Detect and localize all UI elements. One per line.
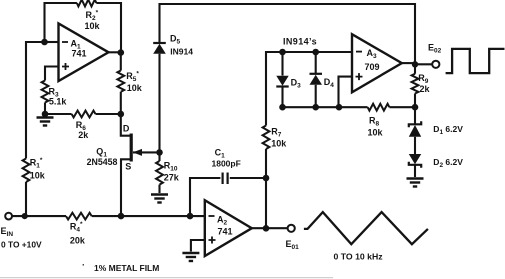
ground under R3 — [37, 117, 54, 126]
wire R3 to ground junction — [44, 103, 46, 115]
node R1 bottom junction — [22, 213, 28, 219]
node C1 R7 junction — [263, 175, 270, 182]
label S — [125, 162, 131, 172]
svg-text:0 TO +10V: 0 TO +10V — [1, 240, 42, 250]
diode D4 — [310, 74, 323, 85]
label E_IN — [1, 226, 14, 238]
wire R7 top to A3 line — [266, 52, 352, 126]
node D3 top junction — [279, 49, 286, 56]
wire A1 inverting input — [45, 41, 59, 43]
wire R4 to A2 — [92, 215, 205, 217]
svg-text:10k: 10k — [368, 128, 384, 138]
waveform triangle wave — [304, 212, 428, 244]
wire D3 top lead — [281, 52, 283, 76]
diode D5 — [153, 43, 166, 54]
svg-text:10k: 10k — [271, 139, 287, 149]
svg-text:IN914: IN914 — [170, 47, 193, 57]
op-amp A2 — [205, 200, 252, 256]
wire D3 bottom lead — [281, 87, 283, 108]
svg-text:2k: 2k — [420, 84, 431, 94]
node R9 D1 junction — [412, 104, 419, 111]
wire Q1 drain lead — [121, 114, 130, 136]
wire A3 noninverting lead — [339, 77, 353, 108]
note 1% metal film — [82, 260, 159, 273]
node source bottom junction — [118, 213, 125, 220]
resistor R5 — [117, 71, 124, 92]
wire R6 right — [96, 113, 121, 115]
label R5 10k — [126, 71, 143, 93]
svg-text:5.1k: 5.1k — [49, 97, 68, 107]
wire A2 output up column — [265, 178, 267, 228]
node R5 R6 drain junction — [118, 111, 125, 118]
label D2 6.2V — [433, 157, 463, 169]
label Q1 2N5458 — [87, 147, 118, 167]
svg-text:20k: 20k — [70, 236, 86, 246]
zener D2 — [409, 154, 421, 168]
wire E_IN to R4 — [12, 215, 66, 217]
label R7 10k — [271, 127, 287, 149]
wire R6 left — [45, 113, 72, 115]
wire A1 feedback loop top rail — [45, 3, 122, 53]
bottom scan line — [0, 277, 333, 279]
waveform square wave — [446, 49, 505, 73]
label R6 2k — [76, 120, 90, 140]
svg-text:709: 709 — [365, 62, 380, 72]
node A2 output junction — [263, 225, 270, 232]
label IN914s — [283, 37, 317, 47]
label 0 TO 10 kHz — [334, 252, 384, 262]
node D4 top junction — [312, 49, 319, 56]
terminal E_O1 — [288, 225, 295, 232]
label D1 6.2V — [433, 124, 463, 136]
svg-text:10k: 10k — [127, 83, 143, 93]
zener D1 — [409, 121, 421, 137]
wire R5 bottom lead — [120, 92, 122, 114]
wire Q1 source lead — [121, 159, 130, 216]
wire A1 output — [109, 51, 122, 53]
wire C1 left lead — [190, 178, 220, 216]
svg-text:·: · — [82, 260, 85, 270]
wire A2 noninverting to ground — [191, 240, 205, 252]
label E_O2 — [428, 43, 442, 55]
wire E_O2 lead — [415, 63, 432, 65]
wire A1 noninverting input — [45, 67, 59, 81]
label A2 741 — [217, 215, 233, 237]
wire D4 top lead — [315, 52, 317, 74]
wire top rail — [160, 4, 416, 65]
label R2 10k — [85, 10, 101, 31]
svg-text:D: D — [123, 124, 130, 134]
svg-text:2k: 2k — [78, 130, 89, 140]
svg-text:0 TO 10 kHz: 0 TO 10 kHz — [334, 252, 384, 262]
svg-text:10k: 10k — [30, 171, 46, 181]
resistor R1 — [23, 159, 30, 183]
diode D3 — [276, 76, 288, 87]
transistor Q1 channel bar — [130, 134, 133, 162]
node A1 inv junction — [41, 39, 48, 46]
label D3 — [291, 78, 302, 90]
capacitor C1 — [223, 173, 228, 185]
wire A3 output — [402, 62, 415, 64]
op-amp A3 — [352, 34, 402, 92]
svg-text:10k: 10k — [85, 21, 101, 31]
wire R9 bottom lead — [414, 94, 416, 108]
wire R8 left lead — [339, 106, 368, 108]
wire D5 anode to gate junction — [158, 54, 160, 153]
wire R8 right lead — [389, 106, 415, 108]
label R10 27k — [164, 161, 180, 183]
label R4 20k — [70, 221, 86, 245]
terminal E_IN — [5, 213, 12, 220]
label A1 741 — [71, 39, 87, 59]
op-amp A1 — [59, 24, 109, 82]
wire limiter bottom line — [283, 106, 340, 108]
svg-text:1800pF: 1800pF — [212, 159, 241, 169]
label R1 10k — [30, 157, 46, 180]
node gate R10 junction — [156, 149, 163, 156]
wire R9 top lead — [414, 64, 416, 74]
wire R10 to ground — [158, 185, 160, 193]
svg-text:IN914’s: IN914’s — [283, 37, 317, 47]
resistor R6 — [72, 111, 96, 118]
wire D1 top lead — [414, 107, 416, 124]
resistor R7 — [263, 126, 270, 150]
svg-text:741: 741 — [218, 227, 233, 237]
node D4 bottom junction — [312, 104, 319, 111]
label C1 1800pF — [212, 148, 241, 169]
arrow Q1 gate — [133, 149, 142, 156]
ground under A2 — [182, 252, 199, 261]
label E_O1 — [286, 239, 300, 251]
svg-text:S: S — [125, 162, 131, 172]
wire R5 top lead — [120, 53, 122, 71]
label D — [123, 124, 130, 134]
label D5 IN914 — [170, 34, 193, 57]
wire R10 top lead — [158, 152, 160, 161]
label R9 2k — [418, 73, 430, 94]
wire D1 D2 link — [414, 137, 416, 154]
node R3 ground junction — [42, 111, 49, 118]
resistor R4 — [66, 213, 92, 220]
label 0 TO +10V — [1, 240, 42, 250]
resistor R2 — [72, 0, 101, 10]
wire D2 to ground — [414, 165, 416, 177]
node C1 left junction — [187, 213, 194, 220]
svg-text:2N5458: 2N5458 — [87, 157, 118, 167]
resistor R8 — [368, 104, 390, 111]
wire R1 to bottom rail — [25, 182, 27, 216]
ground under R10 — [151, 194, 168, 203]
node A1 output junction — [118, 49, 125, 56]
resistor R10 — [156, 161, 163, 185]
wire A2 output — [252, 227, 288, 229]
wire D4 bottom lead — [315, 85, 317, 107]
svg-text:741: 741 — [72, 49, 87, 59]
node D3 bottom junction — [279, 104, 286, 111]
resistor R3 — [42, 81, 49, 103]
wire R7 bottom lead — [265, 149, 267, 178]
label R3 5.1k — [49, 87, 68, 107]
wire left column to R1 — [26, 42, 45, 159]
svg-text:1% METAL FILM: 1% METAL FILM — [94, 263, 159, 273]
label R8 10k — [368, 116, 384, 138]
svg-text:27k: 27k — [164, 173, 180, 183]
ground under D2 — [407, 178, 424, 187]
resistor R9 — [412, 74, 419, 94]
node A3 plus junction — [336, 104, 343, 111]
wire Q1 gate lead — [133, 151, 160, 153]
label A3 709 — [365, 48, 380, 72]
node A3 output junction — [412, 61, 418, 67]
label D4 — [324, 77, 335, 89]
terminal E_O2 — [432, 61, 439, 68]
wire C1 right lead — [230, 177, 266, 179]
